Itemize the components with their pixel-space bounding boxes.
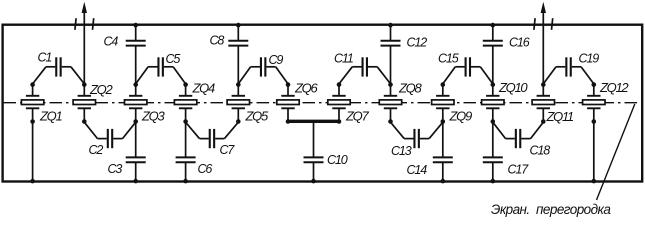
svg-text:C7: C7 bbox=[220, 143, 236, 157]
svg-text:ZQ10: ZQ10 bbox=[498, 80, 528, 95]
svg-text:C9: C9 bbox=[269, 53, 284, 67]
svg-text:C11: C11 bbox=[334, 52, 353, 66]
svg-text:C4: C4 bbox=[104, 35, 119, 49]
svg-text:C13: C13 bbox=[391, 144, 412, 158]
svg-text:C8: C8 bbox=[210, 34, 225, 48]
svg-text:C2: C2 bbox=[89, 143, 104, 157]
svg-text:C6: C6 bbox=[198, 162, 213, 176]
svg-text:C10: C10 bbox=[327, 153, 348, 167]
svg-text:ZQ8: ZQ8 bbox=[398, 81, 422, 96]
svg-text:ZQ3: ZQ3 bbox=[141, 109, 165, 124]
svg-text:C16: C16 bbox=[509, 36, 530, 50]
svg-text:C17: C17 bbox=[508, 163, 530, 177]
svg-text:C15: C15 bbox=[438, 52, 459, 66]
svg-text:ZQ11: ZQ11 bbox=[546, 109, 574, 124]
svg-text:ZQ4: ZQ4 bbox=[192, 81, 215, 96]
svg-text:ZQ9: ZQ9 bbox=[449, 109, 472, 124]
svg-text:C1: C1 bbox=[38, 51, 52, 65]
svg-text:C14: C14 bbox=[407, 163, 428, 177]
svg-text:ZQ7: ZQ7 bbox=[345, 109, 369, 124]
svg-text:C19: C19 bbox=[579, 52, 600, 66]
svg-text:ZQ5: ZQ5 bbox=[245, 109, 269, 124]
svg-text:C18: C18 bbox=[530, 144, 551, 158]
svg-text:ZQ1: ZQ1 bbox=[39, 109, 62, 124]
svg-text:C3: C3 bbox=[108, 162, 123, 176]
svg-text:Экран. перегородка: Экран. перегородка bbox=[491, 202, 611, 217]
svg-text:ZQ12: ZQ12 bbox=[599, 80, 629, 95]
svg-text:ZQ2: ZQ2 bbox=[89, 82, 113, 97]
svg-text:C5: C5 bbox=[166, 52, 181, 66]
svg-text:C12: C12 bbox=[407, 36, 428, 50]
svg-text:ZQ6: ZQ6 bbox=[294, 81, 318, 96]
